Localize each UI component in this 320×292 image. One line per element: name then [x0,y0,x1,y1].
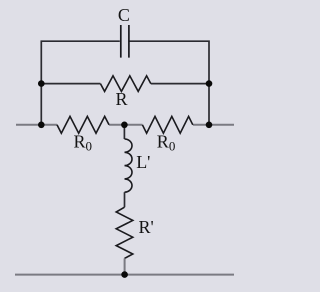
wire: center stem from middle node down to inductor [123,125,125,139]
wire: resistor R row (left and right leads) [41,83,209,85]
resistor R0 right [142,116,192,133]
wire: left terminal stub (middle line) [16,124,57,126]
node: left junction at R row [38,80,45,87]
node: bottom junction [121,271,128,278]
wire: middle segment between R0 resistors [109,124,142,126]
svg-text:L': L' [136,152,150,172]
wire: bottom rail [15,274,234,276]
node: right junction at R row [206,80,213,87]
resistor R0 left [57,116,109,133]
wire: stem from R' down to bottom rail [124,258,126,274]
resistor R' [116,207,133,258]
svg-text:R': R' [139,217,154,237]
node: left junction at middle line [38,122,45,129]
wire: top loop (left vertical, top wire to capacitor, right vertical) [41,41,209,125]
svg-text:C: C [118,5,130,25]
wire: right terminal stub (middle line) [193,124,234,126]
capacitor C [121,25,129,58]
svg-text:R: R [115,89,127,109]
resistor R [100,76,150,92]
node: right junction at middle line [206,122,213,129]
node: center junction at middle line [121,122,128,129]
inductor L' [125,139,133,192]
wire: stem between inductor and resistor R' [124,192,126,207]
